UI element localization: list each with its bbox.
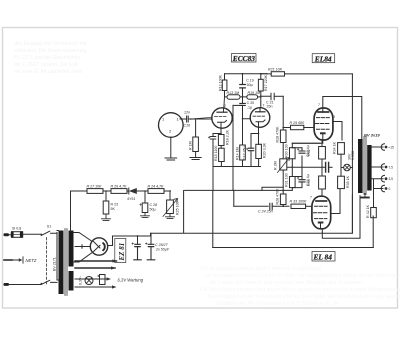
svg-text:,1µ: ,1µ: [247, 106, 252, 110]
svg-text:R 23: R 23: [111, 203, 119, 207]
svg-text:ECC83: ECC83: [232, 54, 255, 63]
svg-text:R13 1M: R13 1M: [227, 91, 240, 95]
svg-text:R 1M: R 1M: [189, 141, 193, 150]
svg-text:R20 3,3K: R20 3,3K: [263, 142, 267, 158]
screen chain resistor R33a: [307, 167, 325, 196]
screen chain resistor R32: [307, 140, 325, 167]
svg-text:5K: 5K: [111, 207, 116, 211]
svg-text:C 28: C 28: [150, 203, 158, 207]
wire cathode/plate bottom EL84 loop: [322, 196, 361, 239]
svg-text:2x 50µF: 2x 50µF: [155, 248, 170, 252]
svg-text:7: 7: [263, 104, 265, 108]
lamp/jack symbol: [341, 164, 352, 171]
resistor R27 10K: [87, 184, 104, 193]
output terminal 15: [381, 144, 394, 151]
resistor R13 1M: [225, 91, 247, 99]
capacitor C16 (input coupling): [183, 111, 191, 128]
fuse Si 0,8: [11, 227, 23, 238]
heater winding 6,3V row: [75, 276, 117, 289]
transformer label BV 3x19: [364, 133, 380, 138]
svg-text:Schaltbild des NF-Verstarkers: Schaltbild des NF-Verstarkers mit ECC 83…: [215, 301, 339, 307]
triode V1a (ECC83): [212, 97, 232, 128]
input socket ground leg: [165, 137, 177, 160]
svg-text:C 24 25n: C 24 25n: [258, 210, 273, 214]
svg-text:50µ: 50µ: [247, 83, 253, 87]
input connector socket: [159, 113, 184, 138]
secondary taps: [372, 147, 384, 189]
mains lead upper: [4, 233, 42, 236]
svg-text:≈15: ≈15: [389, 146, 395, 150]
cathode node V1b: [251, 127, 259, 148]
rectifier tube EZ81: [90, 238, 107, 255]
svg-text:R 2M: R 2M: [274, 161, 278, 170]
node junction dots on buses: [233, 190, 235, 192]
triode V1b (ECC83): [250, 104, 270, 128]
resistor R33 100K (grid stopper bottom): [282, 200, 312, 209]
svg-text:C 26/27: C 26/27: [155, 243, 169, 247]
ghost bleed-through text top-left: [14, 41, 87, 75]
svg-text:0,058: 0,058: [351, 151, 355, 160]
svg-text:verbinden. Die Anodenspannung: verbinden. Die Anodenspannung: [14, 48, 87, 54]
svg-text:3,5: 3,5: [389, 177, 394, 181]
plate node V1b to C21: [260, 95, 270, 107]
svg-text:R21 10K: R21 10K: [268, 67, 283, 71]
capacitor C19 50µ: [240, 74, 254, 97]
wire pot lower stub: [262, 187, 283, 190]
output terminal 3: [381, 175, 393, 182]
output terminal 7: [381, 164, 393, 171]
resistor R29 680 (grid stopper top): [283, 121, 314, 130]
output transformer windings: [358, 137, 372, 195]
svg-text:R 29 680: R 29 680: [290, 121, 305, 125]
resistor R12 (plate load 1): [218, 74, 227, 97]
svg-text:EZ 81: EZ 81: [118, 243, 126, 262]
svg-text:0: 0: [389, 187, 391, 191]
svg-text:R 42 1K: R 42 1K: [366, 204, 370, 218]
svg-text:6,3V Wartung: 6,3V Wartung: [118, 278, 144, 283]
resistor R28 470K (grid leak top): [276, 126, 287, 159]
wire B+ rail: [225, 73, 267, 75]
wire filter drop at x71: [70, 191, 72, 231]
node grid1 junction: [282, 127, 284, 129]
pilot lamp: [85, 277, 93, 285]
resistor R24 4,7K: [148, 184, 165, 193]
resistor R31 (cathode RC bottom): [285, 167, 296, 190]
svg-text:9: 9: [333, 115, 335, 119]
rectifier heater wires: [75, 259, 117, 269]
svg-text:die Katode der Vorstufe und ve: die Katode der Vorstufe und verringert d…: [210, 280, 365, 286]
svg-text:R14 1M: R14 1M: [236, 147, 240, 160]
node M junctions: [292, 167, 323, 169]
ghost bleed-through text bottom: [200, 266, 400, 307]
svg-text:Der Ausgangsubertrager besitzt: Der Ausgangsubertrager besitzt mehrere A…: [200, 266, 321, 272]
svg-text:R 33 100K: R 33 100K: [290, 200, 308, 204]
svg-text:R28 470K: R28 470K: [276, 126, 280, 143]
svg-text:7,5: 7,5: [389, 166, 394, 170]
tube label EL84 (top right): [312, 54, 335, 64]
wire screen B+ drop (right): [351, 74, 353, 233]
capacitor C24 25n: [234, 203, 289, 213]
svg-text:R33: R33: [307, 179, 311, 186]
wire bus B (feedback return): [213, 247, 373, 249]
svg-text:BV 2171 und die Gleichrichter: BV 2171 und die Gleichrichter: [14, 55, 81, 61]
svg-text:R25 100: R25 100: [176, 201, 180, 215]
capacitor cathode bypass V1a: [208, 137, 215, 167]
svg-text:12n: 12n: [184, 111, 190, 115]
svg-text:25n: 25n: [267, 105, 273, 109]
wire grid V1b cross-coupling: [250, 116, 252, 118]
wire C24 feed drop: [233, 191, 235, 207]
wire bus A right riser to transformer: [351, 195, 353, 233]
svg-text:EL 84: EL 84: [313, 253, 333, 262]
capacitor C18 (cathode RC top): [292, 143, 320, 167]
wire drop from signal line to bus A: [183, 191, 185, 234]
HV secondary to rectifier anodes: [74, 233, 92, 263]
svg-text:R 26 4,7K: R 26 4,7K: [111, 184, 128, 188]
svg-text:BV 2171: BV 2171: [53, 257, 57, 271]
svg-text:7: 7: [318, 103, 320, 107]
resistor R42 (feedback): [366, 189, 376, 248]
capacitor across line M: [326, 163, 333, 173]
node bottom tube to bus A: [321, 230, 323, 232]
resistor R28' 470K (grid leak bottom): [276, 188, 287, 206]
cathode node V1a: [213, 128, 222, 136]
wire cathode top EL84: [292, 140, 323, 143]
svg-text:R34 1K: R34 1K: [333, 141, 337, 154]
capacitor C21 25n: [266, 93, 283, 108]
output terminal 0: [381, 185, 390, 192]
svg-text:EL84: EL84: [314, 54, 332, 63]
pentode EL84 bottom: [310, 196, 331, 229]
diode 4Y51: [127, 188, 137, 201]
resistor R21 10K (screen feed): [261, 67, 353, 76]
filter caps C26/C27: [132, 233, 170, 259]
svg-text:R17 220K: R17 220K: [264, 74, 268, 91]
tube label EZ81: [115, 239, 126, 263]
label 6,3V Wartung: [118, 278, 144, 283]
svg-text:R30 130: R30 130: [285, 144, 289, 158]
resistor R17 (plate load 2): [258, 74, 268, 97]
resistor R18b (cathode lower): [214, 146, 224, 167]
potentiometer (balance): [274, 158, 290, 191]
resistor R18a (cathode): [218, 129, 229, 145]
pentode EL84 top: [314, 103, 335, 140]
svg-text:fur die Lautsprecher von 2,5 b: fur die Lautsprecher von 2,5 bis 15 Ohm.…: [205, 273, 400, 279]
svg-text:R32: R32: [307, 149, 311, 156]
wire screen bottom EL84: [331, 189, 341, 214]
switch gang dashed link: [45, 238, 47, 285]
tube label ECC83: [232, 54, 257, 63]
EZ81 cathode to B+: [108, 236, 113, 246]
svg-text:C 19: C 19: [246, 79, 254, 83]
capacitor C20: [233, 97, 254, 119]
wire x283 drop from C21: [282, 96, 284, 130]
svg-text:R 24 4,7K: R 24 4,7K: [148, 184, 165, 188]
wire input to grid: [190, 118, 212, 120]
wire bus A (B+ to output transformer): [113, 233, 353, 236]
svg-text:R31 130: R31 130: [285, 173, 289, 187]
tube label EL84 (bottom): [312, 252, 335, 262]
svg-text:Die Betriebsspannungen sind ge: Die Betriebsspannungen sind gegen Masse …: [200, 287, 400, 293]
svg-text:R28 470K: R28 470K: [276, 188, 280, 205]
resistor R20 (cathode V1b): [256, 134, 267, 167]
potentiometer R25 (hum balance): [163, 190, 180, 218]
resistor R30 (cathode RC top): [285, 143, 296, 167]
svg-text:R18 1100: R18 1100: [214, 146, 218, 161]
wire C20 long drop: [232, 105, 234, 190]
svg-text:R18 2,2K: R18 2,2K: [226, 129, 230, 145]
svg-text:4Y51: 4Y51: [127, 197, 135, 201]
power transformer BV 2171: [53, 229, 74, 296]
switch S1 lower contact: [41, 280, 58, 284]
svg-text:R 27 10K: R 27 10K: [87, 184, 103, 188]
node R13/R19 junction: [242, 96, 244, 98]
svg-text:BV 3x19: BV 3x19: [364, 133, 380, 138]
svg-text:mit C 26/27 gesiebt. Die End: mit C 26/27 gesiebt. Die End: [14, 62, 78, 68]
label 30V 0,058: [348, 151, 355, 160]
svg-text:S1: S1: [47, 224, 51, 228]
resistor R19 1M: [247, 91, 261, 99]
svg-text:R35 1K: R35 1K: [346, 175, 350, 188]
svg-text:Si 0,8: Si 0,8: [12, 227, 21, 231]
svg-text:7: 7: [310, 196, 312, 200]
wire screen top EL84: [333, 122, 342, 141]
capacitor C17 25µ: [243, 146, 254, 166]
transformer frame ground: [361, 194, 369, 198]
screen dropper R34: [333, 141, 345, 164]
wire cathode return bus: [213, 166, 261, 168]
wire grid V1a: [191, 117, 213, 119]
svg-text:C17 25µ: C17 25µ: [243, 146, 247, 160]
wire B+ row: [71, 189, 293, 192]
svg-text:6,3V~: 6,3V~: [79, 276, 83, 286]
wire plate top EL84 to transformer: [323, 97, 362, 140]
wire middle junction line M: [287, 166, 326, 168]
capacitor across heater: [98, 275, 106, 285]
wire bus B left riser: [212, 191, 214, 248]
capacitor C22 (cathode RC bottom): [292, 167, 310, 187]
switch S1 upper contact: [41, 224, 58, 235]
resistor R14 1M (grid leak V1b): [236, 118, 246, 167]
mains lead lower: [4, 283, 42, 286]
screen dropper R35: [338, 164, 350, 188]
wire feedback riser to cathode bus: [212, 167, 214, 192]
resistor R23 (to ground): [102, 190, 119, 220]
svg-text:NETZ: NETZ: [26, 258, 37, 263]
capacitor C28 50µ: [140, 190, 157, 217]
rectifier heater tap: [75, 245, 91, 249]
svg-text:R12 100K: R12 100K: [218, 74, 222, 91]
resistor R26 4,7K: [111, 184, 128, 193]
svg-text:Beim Abgleich ist ein Rohrenvo: Beim Abgleich ist ein Rohrenvoltmeter zu…: [208, 294, 400, 300]
svg-text:2: 2: [224, 104, 226, 108]
resistor R22 1M (grid leak): [189, 119, 202, 160]
svg-text:den Eingang des Verstarkers mi: den Eingang des Verstarkers mit: [14, 41, 87, 47]
svg-text:R19 1M: R19 1M: [248, 91, 261, 95]
NETZ label: [4, 257, 37, 263]
svg-text:C16: C16: [184, 124, 191, 128]
svg-text:50µ: 50µ: [150, 208, 156, 212]
svg-text:mit zwei EL 84 und liefert etw: mit zwei EL 84 und liefert etwa: [14, 69, 82, 75]
